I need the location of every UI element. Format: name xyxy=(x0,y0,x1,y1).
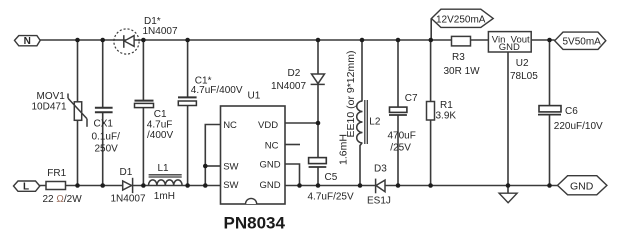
wire U2 GND lead xyxy=(507,52,509,193)
svg-text:1.6mH: 1.6mH xyxy=(337,134,349,165)
svg-text:NC: NC xyxy=(265,141,279,152)
node top C1 xyxy=(141,38,146,43)
svg-text:250V: 250V xyxy=(95,144,119,155)
svg-text:GND: GND xyxy=(570,180,594,192)
svg-text:0.1uF/: 0.1uF/ xyxy=(92,132,121,143)
resistor R1 xyxy=(427,102,435,121)
wire bottom rail left xyxy=(40,185,221,187)
svg-text:470uF: 470uF xyxy=(388,131,416,142)
svg-text:U2: U2 xyxy=(516,58,529,69)
connector N xyxy=(15,36,41,46)
wire NC left stub xyxy=(205,125,220,186)
diode D3 xyxy=(376,179,385,194)
wire R1 branch xyxy=(430,40,432,102)
node rail C5 xyxy=(316,183,321,188)
svg-text:N: N xyxy=(24,36,31,47)
svg-text:U1: U1 xyxy=(248,91,261,102)
node top D2 xyxy=(316,38,321,43)
U1 bottom notch xyxy=(246,198,257,204)
node rail C6 xyxy=(547,183,552,188)
node top C7 xyxy=(396,38,401,43)
svg-text:1N4007: 1N4007 xyxy=(143,26,178,37)
svg-text:4.7uF/400V: 4.7uF/400V xyxy=(191,85,243,96)
svg-text:220uF/10V: 220uF/10V xyxy=(554,121,603,132)
svg-text:1N4007: 1N4007 xyxy=(271,81,306,92)
wire U2 out to 5V node xyxy=(531,39,555,41)
node rail C1 xyxy=(141,183,146,188)
svg-text:FR1: FR1 xyxy=(47,168,66,179)
svg-text:CX1: CX1 xyxy=(94,119,114,130)
svg-text:NC: NC xyxy=(223,120,237,131)
svg-text:L: L xyxy=(23,182,29,193)
diode D1 xyxy=(123,178,133,193)
svg-text:D2: D2 xyxy=(288,68,301,79)
svg-text:D3: D3 xyxy=(374,164,387,175)
wire top rail right of R3 xyxy=(471,39,489,41)
connector L xyxy=(14,181,40,191)
capacitor C1* (electrolytic) xyxy=(178,97,197,105)
wire C1 branch xyxy=(142,40,144,100)
svg-text:1N4007: 1N4007 xyxy=(111,194,146,205)
svg-text:D1: D1 xyxy=(120,167,133,178)
svg-text:C5: C5 xyxy=(325,172,338,183)
node rail C1* xyxy=(185,183,190,188)
node SW2 xyxy=(203,183,208,188)
node rail L2 xyxy=(358,183,363,188)
wire bottom rail right xyxy=(285,185,558,187)
wire GND1 stub jog xyxy=(285,164,300,186)
regulator U2 78L05 xyxy=(488,32,531,52)
svg-text:30R 1W: 30R 1W xyxy=(444,66,481,77)
wire SW1 stub xyxy=(205,165,220,167)
node rail C7 xyxy=(396,183,401,188)
connector 5V50mA xyxy=(555,32,606,49)
svg-text:ES1J: ES1J xyxy=(367,196,391,207)
svg-text:4.7uF: 4.7uF xyxy=(147,119,173,130)
svg-text:PN8034: PN8034 xyxy=(224,214,286,233)
node SW1 xyxy=(203,164,208,169)
varistor MOV1 xyxy=(68,94,87,127)
svg-text:22 Ω/2W: 22 Ω/2W xyxy=(43,194,83,205)
node rail GND1 xyxy=(297,183,302,188)
svg-text:12V250mA: 12V250mA xyxy=(436,14,486,25)
inductor L2 with core xyxy=(357,100,368,144)
wire C6 branch xyxy=(549,40,551,106)
svg-text:GND: GND xyxy=(260,159,281,170)
node top C1* xyxy=(185,38,190,43)
svg-text:C6: C6 xyxy=(565,106,578,117)
capacitor C6 xyxy=(538,106,561,115)
wire MOV1 branch xyxy=(77,40,79,102)
ground xyxy=(499,193,517,203)
svg-text:4.7uF/25V: 4.7uF/25V xyxy=(308,192,354,203)
capacitor C5 xyxy=(309,158,327,167)
wire C7 branch xyxy=(397,40,399,107)
IC U1 PN8034 xyxy=(221,106,286,204)
svg-text:EE10 (or 9*12mm): EE10 (or 9*12mm) xyxy=(345,51,357,138)
wire 12V node lead xyxy=(430,19,432,41)
wire C1* branch xyxy=(187,40,189,97)
node rail CX1 xyxy=(100,183,105,188)
svg-text:78L05: 78L05 xyxy=(510,71,538,82)
wire C5 branch xyxy=(317,123,319,158)
node top MOV1 xyxy=(75,38,80,43)
node top R1 xyxy=(429,38,434,43)
connector 12V250mA xyxy=(431,9,493,27)
node rail U2gnd xyxy=(506,183,511,188)
svg-text:5V50mA: 5V50mA xyxy=(563,37,602,48)
fusible resistor FR1 xyxy=(46,182,66,190)
wire VDD pin stub xyxy=(285,122,318,124)
wire CX1 branch xyxy=(102,40,104,107)
inductor L1 xyxy=(149,175,183,186)
node rail MOV1 xyxy=(75,183,80,188)
wire L2 branch xyxy=(361,40,363,101)
diode D1* (dashed circle) xyxy=(114,29,139,54)
capacitor C7 xyxy=(389,107,407,115)
svg-text:1mH: 1mH xyxy=(154,191,175,202)
svg-text:R3: R3 xyxy=(452,52,465,63)
node 5V xyxy=(547,38,552,43)
svg-text:L2: L2 xyxy=(369,117,381,128)
svg-text:SW: SW xyxy=(223,180,238,191)
node top CX1 xyxy=(100,38,105,43)
capacitor C1 (electrolytic) xyxy=(135,101,154,108)
svg-text:VDD: VDD xyxy=(258,120,278,131)
node VDD xyxy=(316,121,321,126)
svg-text:C7: C7 xyxy=(405,93,418,104)
svg-text:GND: GND xyxy=(260,180,281,191)
svg-text:GND: GND xyxy=(499,42,520,53)
svg-text:3.9K: 3.9K xyxy=(436,110,457,121)
connector GND xyxy=(558,176,607,195)
capacitor CX1 xyxy=(95,108,113,113)
resistor R3 xyxy=(452,36,471,46)
node top L2 xyxy=(360,38,365,43)
wire D2/VDD branch xyxy=(317,40,319,74)
svg-text:/400V: /400V xyxy=(147,130,173,141)
node rail R1 xyxy=(428,183,433,188)
svg-text:10D471: 10D471 xyxy=(32,102,67,113)
svg-text:SW: SW xyxy=(223,162,238,173)
svg-text:/25V: /25V xyxy=(390,143,411,154)
wire top rail xyxy=(40,39,452,41)
wire NC right stub xyxy=(285,144,300,146)
svg-text:L1: L1 xyxy=(158,163,170,174)
diode D2 xyxy=(311,74,325,84)
